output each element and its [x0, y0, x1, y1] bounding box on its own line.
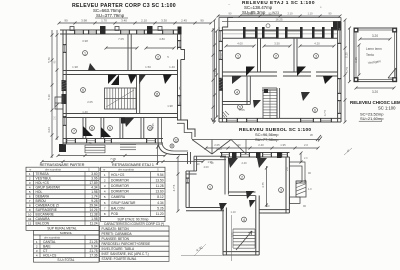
svg-text:4.00: 4.00 [237, 42, 243, 46]
svg-text:2: 2 [157, 55, 159, 59]
svg-text:3: 3 [315, 54, 317, 58]
svg-text:2.45: 2.45 [181, 19, 187, 23]
svg-text:4.80: 4.80 [159, 37, 165, 41]
svg-text:1: 1 [209, 185, 211, 189]
svg-text:HOL+CS: HOL+CS [111, 173, 125, 177]
svg-text:3.30: 3.30 [161, 19, 167, 23]
svg-text:1.50: 1.50 [145, 65, 151, 69]
svg-text:TERASA: TERASA [36, 172, 50, 176]
svg-text:SUP RURAL METAL: SUP RURAL METAL [47, 226, 77, 230]
svg-text:1.35: 1.35 [151, 123, 155, 129]
svg-text:1.0: 1.0 [308, 187, 312, 191]
svg-text:SUBSOL: SUBSOL [60, 231, 73, 235]
svg-text:9.28: 9.28 [91, 199, 97, 203]
svg-text:BAIE: BAIE [43, 244, 51, 248]
svg-text:4: 4 [236, 90, 238, 94]
svg-text:1.70: 1.70 [101, 19, 107, 23]
svg-text:2.0: 2.0 [285, 167, 289, 171]
svg-text:RELEVEU PARTER CORP C3 SC 1:10: RELEVEU PARTER CORP C3 SC 1:100 [72, 3, 176, 9]
svg-text:11.24: 11.24 [90, 221, 98, 225]
svg-text:SU=21,60mp: SU=21,60mp [360, 116, 384, 121]
svg-text:SUP ETAJ1: 90,70mp: SUP ETAJ1: 90,70mp [118, 217, 149, 221]
svg-text:HOL+CS: HOL+CS [36, 181, 50, 185]
svg-text:CAMARA: CAMARA [36, 217, 51, 221]
svg-text:2.05: 2.05 [214, 143, 220, 147]
svg-text:1.40: 1.40 [82, 110, 88, 114]
svg-text:W: W [310, 133, 313, 137]
svg-text:3.96: 3.96 [91, 177, 97, 181]
svg-text:11.38: 11.38 [90, 213, 98, 217]
svg-text:BUCATARIE: BUCATARIE [36, 213, 55, 217]
svg-text:3.98: 3.98 [82, 39, 88, 43]
svg-text:3.25: 3.25 [354, 57, 358, 63]
svg-text:9: 9 [109, 126, 111, 130]
svg-text:RELEVEU CHIOSC LEMN: RELEVEU CHIOSC LEMN [350, 100, 400, 105]
svg-text:den suprafata: den suprafata [45, 168, 61, 172]
svg-text:12: 12 [28, 221, 32, 225]
svg-text:11: 11 [155, 92, 159, 96]
svg-text:6: 6 [314, 108, 316, 112]
svg-text:FUNDATII: BETON: FUNDATII: BETON [102, 227, 130, 231]
svg-text:POD: POD [111, 212, 119, 216]
svg-text:4.00: 4.00 [203, 165, 209, 169]
svg-text:DORMITOR: DORMITOR [111, 190, 130, 194]
svg-text:5.7.5: 5.7.5 [345, 66, 349, 73]
svg-text:5.26: 5.26 [157, 206, 163, 210]
svg-text:HOL: HOL [36, 190, 43, 194]
svg-text:1.98: 1.98 [91, 217, 97, 221]
svg-text:2.10: 2.10 [287, 12, 293, 16]
svg-text:1: 1 [84, 51, 86, 55]
svg-text:4: 4 [243, 218, 245, 222]
svg-text:4.7.5: 4.7.5 [323, 109, 327, 116]
svg-text:5.25: 5.25 [345, 52, 349, 58]
svg-text:1: 1 [237, 54, 239, 58]
svg-text:12: 12 [174, 138, 178, 142]
svg-text:2: 2 [275, 54, 277, 58]
svg-text:11: 11 [28, 217, 31, 221]
svg-text:SC 1:100: SC 1:100 [378, 106, 396, 111]
svg-text:den suprafata: den suprafata [44, 235, 60, 239]
svg-text:4.75: 4.75 [261, 182, 265, 188]
svg-text:S: S [157, 168, 159, 172]
svg-text:5.76: 5.76 [47, 57, 51, 63]
svg-text:PLANSEE: BETON: PLANSEE: BETON [102, 237, 130, 241]
svg-text:CARACTERISTICI CONSTR CORP C3: CARACTERISTICI CONSTR CORP C3 (*) [104, 222, 164, 226]
svg-text:STARE: FOARTE BUNA: STARE: FOARTE BUNA [102, 257, 138, 261]
svg-text:4.7.5: 4.7.5 [172, 184, 176, 191]
svg-text:SUFRAGERIE: SUFRAGERIE [36, 208, 58, 212]
svg-text:13.50: 13.50 [156, 178, 164, 182]
svg-text:W23: W23 [272, 11, 279, 15]
svg-text:2.05: 2.05 [239, 108, 245, 112]
svg-text:5.10: 5.10 [47, 94, 51, 100]
svg-text:RETRASIGNARE ETAJ 1: RETRASIGNARE ETAJ 1 [112, 163, 154, 167]
svg-text:3.60: 3.60 [91, 172, 97, 176]
svg-text:PERETI: CARAMIDA: PERETI: CARAMIDA [102, 232, 133, 236]
svg-text:4.34: 4.34 [157, 201, 163, 205]
svg-text:3: 3 [280, 188, 282, 192]
svg-text:BIROU: BIROU [36, 199, 47, 203]
svg-text:SU=85.3mp: SU=85.3mp [242, 10, 266, 15]
svg-text:90: 90 [64, 19, 68, 23]
svg-text:75: 75 [88, 141, 92, 145]
svg-text:CT: CT [43, 249, 47, 253]
svg-text:2.0: 2.0 [54, 116, 57, 120]
svg-text:4.30: 4.30 [216, 147, 222, 151]
svg-text:2.0: 2.0 [304, 143, 308, 147]
svg-text:7.05: 7.05 [110, 157, 116, 161]
svg-text:90: 90 [200, 19, 204, 23]
svg-text:11.20: 11.20 [156, 212, 164, 216]
svg-text:1.98: 1.98 [72, 65, 78, 69]
svg-text:3.48: 3.48 [247, 12, 253, 16]
svg-text:Tenta: Tenta [366, 53, 374, 57]
svg-text:den suprafata: den suprafata [118, 168, 134, 172]
svg-text:3.98: 3.98 [81, 19, 87, 23]
svg-text:11.28: 11.28 [156, 184, 164, 188]
svg-text:INST: SANITARE, INC (APA C.T.): INST: SANITARE, INC (APA C.T.) [102, 252, 149, 256]
svg-text:HOL+CS: HOL+CS [43, 253, 57, 257]
svg-text:RETRASIGNARE PARTER: RETRASIGNARE PARTER [40, 163, 85, 167]
svg-text:17.36: 17.36 [90, 253, 98, 257]
svg-text:1.98: 1.98 [167, 104, 173, 108]
svg-text:14.26: 14.26 [90, 208, 98, 212]
svg-text:1.40: 1.40 [169, 65, 175, 69]
svg-text:VESTIBUL: VESTIBUL [36, 177, 52, 181]
svg-text:nr: nr [29, 168, 31, 172]
svg-text:7.05: 7.05 [118, 37, 124, 41]
svg-text:nr: nr [103, 168, 105, 172]
svg-text:17.89: 17.89 [90, 181, 98, 185]
svg-text:SU=377.79mp: SU=377.79mp [96, 13, 125, 18]
svg-text:2.05: 2.05 [231, 232, 235, 238]
svg-text:8: 8 [91, 126, 93, 130]
svg-text:2.05: 2.05 [87, 100, 93, 104]
svg-text:4.20: 4.20 [314, 42, 320, 46]
svg-text:GRUP SANITAR: GRUP SANITAR [36, 186, 61, 190]
svg-text:9.54: 9.54 [157, 173, 163, 177]
svg-text:INVELITOARE: TABLA: INVELITOARE: TABLA [102, 247, 135, 251]
svg-text:2.40: 2.40 [241, 161, 247, 165]
svg-text:DEBARA: DEBARA [36, 195, 50, 199]
svg-text:7: 7 [73, 129, 75, 133]
svg-text:PARDOSELI: PARCHET+GRESIE: PARDOSELI: PARCHET+GRESIE [102, 242, 151, 246]
svg-text:21.25: 21.25 [90, 240, 98, 244]
svg-text:2.0: 2.0 [304, 157, 308, 160]
svg-text:BALCON: BALCON [36, 221, 50, 225]
svg-text:BALCON: BALCON [111, 206, 125, 210]
svg-text:3.20: 3.20 [372, 90, 378, 94]
svg-text:8.12: 8.12 [157, 195, 163, 199]
svg-text:9.04: 9.04 [91, 244, 97, 248]
svg-text:3.40: 3.40 [121, 19, 127, 23]
svg-text:1.74: 1.74 [91, 195, 97, 199]
svg-text:29.94: 29.94 [90, 204, 98, 208]
svg-text:4.34: 4.34 [91, 186, 97, 190]
svg-text:1.95: 1.95 [207, 160, 213, 164]
svg-text:DORMITOR: DORMITOR [111, 184, 130, 188]
svg-text:3.64: 3.64 [47, 127, 51, 133]
svg-text:CAMERA DE ZI: CAMERA DE ZI [36, 204, 59, 208]
svg-text:3.98: 3.98 [220, 53, 224, 59]
svg-text:1.10: 1.10 [230, 210, 236, 214]
svg-text:S.U=TOTAL: S.U=TOTAL [57, 258, 74, 262]
svg-text:DORMITOR: DORMITOR [111, 178, 130, 182]
svg-text:3.50: 3.50 [274, 42, 280, 46]
svg-text:CAMERA: CAMERA [111, 195, 126, 199]
svg-text:1.95: 1.95 [280, 143, 286, 147]
svg-text:10: 10 [28, 213, 32, 217]
svg-text:2: 2 [241, 175, 243, 179]
svg-text:16.25: 16.25 [276, 18, 283, 22]
svg-text:3.20: 3.20 [372, 34, 378, 38]
svg-text:6: 6 [82, 88, 84, 92]
svg-text:2.40: 2.40 [258, 143, 264, 147]
svg-text:Lemn lemn: Lemn lemn [366, 47, 382, 51]
svg-text:2.10: 2.10 [141, 19, 147, 23]
svg-text:90: 90 [237, 143, 241, 147]
svg-text:GA: GA [179, 102, 182, 106]
svg-text:1.98: 1.98 [91, 190, 97, 194]
svg-text:CANTAL: CANTAL [43, 240, 56, 244]
svg-text:GRUP SANITAR: GRUP SANITAR [111, 201, 136, 205]
svg-text:21.75: 21.75 [90, 249, 98, 253]
svg-text:S: S [88, 168, 90, 172]
svg-text:1.10: 1.10 [307, 12, 313, 16]
svg-text:13.60: 13.60 [156, 190, 164, 194]
